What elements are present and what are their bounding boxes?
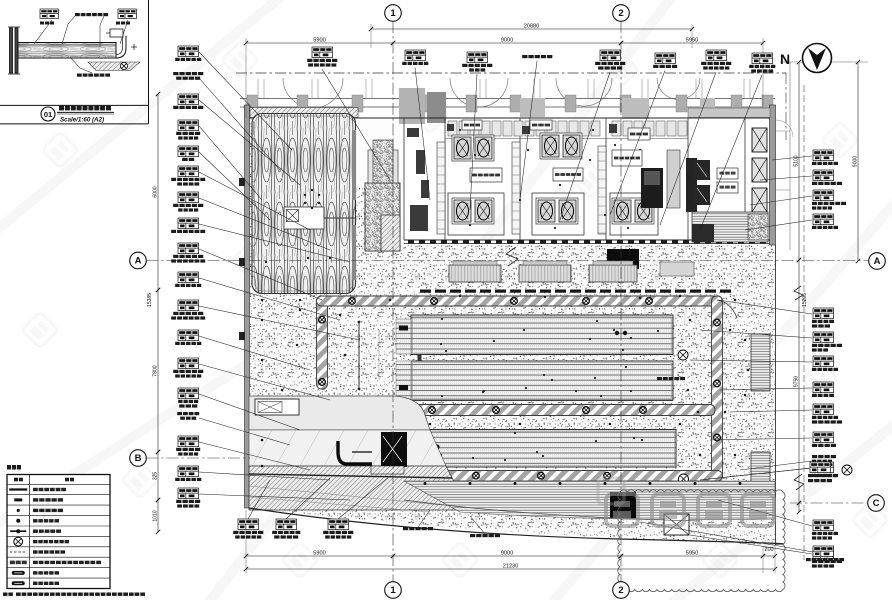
svg-text:01: 01 [44, 110, 52, 119]
svg-text:5900: 5900 [313, 38, 325, 44]
svg-text:9000: 9000 [501, 38, 513, 44]
left callout tags [178, 46, 199, 57]
right dashed boundary [803, 85, 805, 560]
left dimension line [157, 94, 159, 290]
grid bubble C right [868, 495, 885, 512]
wood grain suspended ceiling panel [252, 114, 356, 294]
bottom striped apron [404, 481, 775, 520]
detail: cantilever beam with wood soffit [18, 43, 116, 59]
grid bubble B left [130, 450, 147, 467]
pendant circle fixtures on bands [349, 298, 356, 305]
detail leader lines [34, 20, 52, 44]
svg-text:15385: 15385 [147, 293, 153, 307]
svg-text:1010: 1010 [153, 510, 159, 521]
kitchen partitions [403, 118, 405, 240]
grid bubble A left [130, 252, 147, 269]
grid bubble 1 bottom [385, 582, 402, 599]
black service block [607, 249, 639, 269]
revision cloud [618, 490, 785, 592]
svg-text:20880: 20880 [524, 24, 540, 30]
dark entry box [381, 432, 407, 467]
slatted ceiling panel P3 [415, 430, 676, 468]
detail title text [59, 106, 64, 111]
right wall [770, 105, 776, 245]
top dimension 20880 [371, 28, 692, 30]
detail view frame [0, 104, 149, 106]
dining floor stipple [249, 245, 775, 545]
svg-text:A: A [874, 256, 881, 267]
right callout tags [813, 150, 834, 161]
right kitchen room [752, 128, 767, 152]
svg-text:5100: 5100 [794, 155, 800, 166]
svg-text:1: 1 [390, 8, 396, 19]
hatched ceiling band loop [317, 296, 328, 389]
legend note [3, 593, 8, 596]
svg-text:9000: 9000 [501, 551, 513, 557]
entrance hatch wedge [249, 466, 464, 510]
top callout tags [312, 47, 333, 58]
svg-text:A: A [135, 256, 142, 267]
top structure strip [236, 72, 786, 74]
right outside rooms [789, 62, 791, 250]
svg-text:N: N [780, 51, 790, 67]
svg-text:9000: 9000 [853, 156, 859, 167]
svg-text:9750: 9750 [794, 376, 800, 387]
grid bubble A right [869, 253, 886, 270]
detail: floor hatch wedge [88, 62, 140, 71]
grid bubble 2 top [613, 5, 630, 22]
bottom dims [246, 555, 393, 557]
svg-text:C: C [873, 498, 880, 509]
bar counter dotted [365, 183, 400, 251]
svg-text:325: 325 [153, 472, 159, 481]
structural columns [247, 95, 258, 112]
watermark logo cluster bottom right [606, 494, 774, 526]
downlight dots [299, 309, 302, 312]
black box bottom center [610, 492, 636, 518]
black hook curve [338, 441, 372, 464]
legend table [7, 475, 110, 589]
grid line A [146, 260, 869, 262]
A-row squiggle break [506, 247, 518, 266]
grid bubble 1 top [385, 5, 402, 22]
buffet counters [449, 265, 501, 282]
grid bubble 2 bottom [613, 582, 630, 599]
svg-text:21230: 21230 [503, 564, 519, 570]
svg-text:7800: 7800 [153, 365, 159, 376]
svg-text:B: B [135, 453, 142, 464]
right dimension lines [798, 62, 800, 260]
svg-text:6000: 6000 [153, 186, 159, 197]
crossed service box [664, 514, 689, 535]
entrance canopy zone [249, 396, 430, 430]
top dims row2 [246, 42, 393, 44]
svg-text:1: 1 [390, 585, 396, 596]
prep table outlines [448, 193, 504, 235]
side counters [437, 142, 445, 234]
seam lines below top band [414, 307, 416, 328]
grid line 2 [620, 21, 622, 582]
slatted ceiling panel P2 [411, 361, 673, 400]
svg-text:2: 2 [618, 8, 623, 19]
slatted ceiling panel P1 [411, 315, 673, 355]
svg-text:Scale/1:60 (A2): Scale/1:60 (A2) [60, 117, 104, 124]
svg-text:5950: 5950 [686, 551, 698, 557]
bottom-right tags near cloud [810, 462, 831, 473]
right wall shelving [751, 334, 770, 391]
legend title [7, 465, 11, 470]
left wall [245, 105, 250, 508]
detail title: circle 01 [41, 107, 55, 121]
cantilever edge curve [249, 508, 783, 544]
detail callout tags [40, 9, 59, 19]
bottom callout tags [238, 519, 259, 530]
detail: wall post [10, 28, 13, 73]
grid line 1 [392, 21, 394, 582]
svg-text:2: 2 [618, 585, 623, 596]
kitchen top shelf row [448, 121, 457, 136]
bottom floating texts [403, 527, 408, 530]
top wall line [249, 117, 770, 119]
svg-text:5900: 5900 [313, 551, 325, 557]
